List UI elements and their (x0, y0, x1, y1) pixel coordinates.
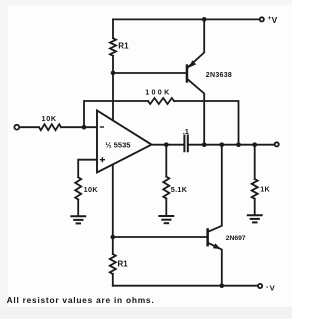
svg-text:R1: R1 (118, 260, 129, 269)
svg-text:2N697: 2N697 (226, 235, 246, 242)
svg-text:R1: R1 (118, 42, 129, 51)
svg-text:V: V (272, 15, 278, 25)
svg-text:1K: 1K (260, 184, 270, 193)
svg-text:All resistor values are in ohm: All resistor values are in ohms. (7, 295, 155, 305)
svg-text:½ 5535: ½ 5535 (105, 141, 131, 150)
svg-text:10K: 10K (42, 114, 57, 123)
svg-text:.1: .1 (183, 127, 189, 136)
svg-text:100K: 100K (145, 88, 171, 97)
svg-text:5.1K: 5.1K (171, 185, 188, 194)
svg-text:2N3638: 2N3638 (206, 72, 232, 79)
svg-text:10K: 10K (84, 185, 99, 194)
